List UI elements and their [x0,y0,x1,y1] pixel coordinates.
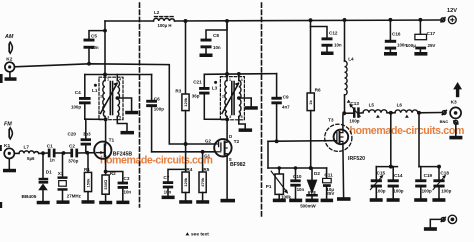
svg-text:6V8: 6V8 [308,190,316,195]
ground P1 [273,199,286,203]
node junction L1 pin3 drain [104,117,108,121]
node junction L3 pin1 [225,72,229,76]
capacitor C2 [64,149,95,158]
svg-text:C7: C7 [163,175,169,180]
resistor R3 120k [182,94,189,144]
svg-text:C16: C16 [392,31,401,36]
inductor L7 [19,151,39,154]
svg-text:5: 5 [119,115,121,119]
svg-text:K1: K1 [4,143,10,149]
inductor L5 [363,110,387,113]
capacitor C10 [290,166,300,198]
ground K3 [449,124,462,139]
node L3 phase dot [214,81,217,84]
node junction T3 drain-L4-C13 [342,111,346,115]
svg-text:25V: 25V [326,191,334,196]
svg-text:R5: R5 [203,167,209,172]
ground D1 [37,201,50,205]
connector plug 12V [441,18,445,22]
node junction C5 tap [103,29,107,33]
wire L7 to C1 [39,152,48,154]
svg-text:AM: AM [4,34,14,40]
svg-text:2: 2 [100,94,102,98]
svg-text:27MHz: 27MHz [67,194,82,199]
connector plug K3 [442,110,446,114]
svg-text:C8: C8 [213,33,219,38]
diode D2 zener 6V8 [306,168,318,199]
connector symbol AM plug [9,41,13,55]
svg-text:100p: 100p [375,188,385,193]
wire G2 bias to R4 [185,144,187,172]
svg-text:100µ H: 100µ H [158,23,172,28]
note see text [185,232,209,238]
ground R1 [82,200,95,204]
svg-text:C6: C6 [154,96,160,101]
svg-text:R2: R2 [110,171,116,176]
ground T3 source [337,197,351,201]
node junction supply-tank top [103,73,107,77]
node junction L5-L6 [389,111,393,115]
svg-text:L3: L3 [212,85,218,90]
svg-text:L1: L1 [92,88,98,93]
ground C16 [384,52,397,56]
svg-text:120k: 120k [183,177,188,187]
capacitor C20 [81,119,91,153]
svg-text:4: 4 [241,78,243,82]
node junction L6 output [417,111,421,115]
svg-text:330Ω: 330Ω [103,180,108,190]
wire L3 pin5 to ground [239,117,253,132]
svg-text:100k: 100k [281,194,291,199]
svg-text:T3: T3 [328,117,334,123]
svg-text:C11: C11 [324,172,333,177]
diode D1 varicap BB405 [38,153,48,201]
capacitor C8 [201,21,228,54]
transformer L3 secondary winding [239,74,241,117]
svg-text:D2: D2 [314,171,320,176]
ground C10 [289,199,302,203]
capacitor C19 [415,167,426,199]
node junction X1 tap [62,151,66,155]
transistor T3 IRF520 MOSFET [325,124,352,151]
svg-text:C21: C21 [193,80,202,85]
wire R6 feed from rail [310,20,312,93]
svg-text:C2: C2 [69,143,75,148]
node junction rail-L4 [343,18,347,22]
svg-text:C3: C3 [124,176,130,181]
svg-text:5: 5 [241,115,243,119]
ground X1 [57,200,70,204]
svg-text:C12: C12 [329,30,338,35]
svg-text:1: 1 [107,78,109,82]
potentiometer P1 100k [271,166,288,198]
node L1 phase dot [94,84,97,87]
wire L1 secondary tap to ground [116,96,139,114]
wire C15-C14 top [376,166,397,168]
svg-text:100µ: 100µ [406,43,416,48]
wire AM input K2 to G2 drop [15,64,215,144]
capacitor C7 [163,169,186,195]
wire drop to C19/C18 [418,113,420,167]
svg-text:10n: 10n [164,189,172,194]
wire K1 to L7 [15,152,19,154]
svg-text:470k: 470k [200,177,205,187]
node junction L3 pin4 [237,72,241,76]
node junction T1 gate [85,151,89,155]
svg-text:FM: FM [4,121,12,127]
svg-text:C17: C17 [427,31,436,36]
capacitor C1 [48,149,64,158]
svg-text:3: 3 [107,115,109,119]
svg-text:D1: D1 [46,170,52,175]
svg-text:T1: T1 [109,138,115,144]
wire C4 bottom to T1 drain node [85,118,106,120]
ground R5 [196,200,209,204]
wire T2 source to ground [226,156,228,198]
svg-text:K3: K3 [451,100,457,106]
capacitor C12 [311,27,333,52]
svg-text:IRF520: IRF520 [348,156,365,162]
capacitor C11 electrolytic [323,168,332,199]
svg-text:R1: R1 [84,167,90,172]
shield divider dashed line 2 [261,3,263,216]
svg-text:G2: G2 [205,138,211,143]
svg-text:2: 2 [222,94,224,98]
svg-text:10n: 10n [91,45,99,50]
resistor R2 330 [102,175,109,201]
wire drop to C15/C14 [390,113,392,167]
svg-text:R3: R3 [175,89,181,94]
wire T3 drain up [343,113,344,130]
wire C19-C18 top [419,166,439,168]
node junction rail-C16 [388,18,392,22]
svg-text:P1: P1 [266,184,272,189]
svg-text:G1: G1 [204,154,210,159]
transformer L1 secondary winding [117,75,119,117]
svg-text:C10: C10 [293,174,302,179]
node junction D1 tap [41,151,45,155]
capacitor C9 [271,74,281,142]
resistor R5 470k [199,152,206,200]
transformer L3 tuning arrow [222,82,239,114]
connector K2 [5,62,15,72]
svg-text:X1: X1 [58,171,64,176]
connector K1 [4,148,14,158]
ground C18 [432,198,445,202]
capacitor C4 [79,75,91,120]
ground C8 [200,54,213,58]
wire T1 drain to tank [105,119,107,141]
wire T3 gate line [268,140,334,143]
capacitor C3 [106,172,128,201]
svg-text:C14: C14 [394,173,403,178]
ground K2 [5,72,17,81]
svg-text:L5: L5 [369,103,375,108]
svg-text:4: 4 [119,78,121,82]
svg-text:C18: C18 [440,170,449,175]
svg-text:homemade-circuits.com: homemade-circuits.com [350,125,465,137]
inductor L2 [154,17,175,21]
inductor L6 [395,110,418,113]
ground T2 source [221,199,236,203]
svg-text:100p: 100p [393,188,403,193]
capacitor C21 [199,74,227,119]
svg-text:10n: 10n [124,190,132,195]
ground C7 [162,196,175,200]
wire L6 to K3 [418,112,441,114]
svg-text:C9: C9 [283,95,289,100]
resistor R1 150k [84,153,91,200]
svg-text:100p: 100p [71,105,81,110]
svg-text:1k: 1k [308,100,313,105]
node junction L3 pin3 drain [225,117,229,121]
wire bias network top [268,167,327,169]
capacitor C18 trimmer [433,167,446,199]
svg-text:BF245B: BF245B [113,151,133,157]
svg-text:L6: L6 [397,103,403,108]
svg-text:3: 3 [229,115,231,119]
svg-text:10n: 10n [213,45,221,50]
resistor R6 1k [307,93,314,168]
svg-text:see text: see text [191,232,209,238]
svg-text:R6: R6 [315,87,321,92]
capacitor C5 [84,31,106,64]
svg-text:BF982: BF982 [230,162,246,168]
wire supply drop to L1 tank [104,21,106,75]
terminal 12V [448,16,456,24]
wire +12V top rail [105,20,154,22]
transformer L3 primary winding [225,74,227,119]
svg-text:150k: 150k [85,178,90,188]
ground C12 [321,52,334,56]
node junction C9-gate [275,139,279,143]
svg-text:5µ6: 5µ6 [27,156,35,161]
svg-text:500mW: 500mW [300,203,316,208]
node junction C15/C14 [389,165,393,169]
transformer L1 tuning arrow [101,82,118,114]
capacitor C16 [385,20,396,52]
antenna arrow [453,82,462,97]
marker triangle L5 [376,115,380,118]
svg-text:4n7: 4n7 [282,105,290,110]
svg-text:25V: 25V [428,43,436,48]
wire T1 source [105,159,107,175]
marker triangle L4 [347,100,351,103]
crystal X1 27MHz [58,153,68,200]
node junction rail-C17 [418,18,422,22]
marker triangle L6 [405,115,409,118]
node junction rail-L3 feed [225,19,229,23]
svg-text:100p: 100p [154,107,164,112]
ground R4 [179,200,192,204]
capacitor C14 [388,167,399,199]
node junction G2 bias divider [184,142,188,146]
transformer L1 primary winding [103,75,106,120]
resistor R4 120k [182,172,189,200]
capacitor C15 trimmer [370,167,383,199]
svg-text:C4: C4 [75,90,81,95]
node junction C5-AM wire [87,62,91,66]
ground C17 [414,52,427,56]
transformer L3 core [232,82,234,115]
capacitor C13 trimmer [344,104,363,118]
ground C3 [116,201,129,205]
connector symbol FM plug [9,126,13,140]
node junction C18 top [437,165,441,169]
ground K1 [3,159,16,173]
ground C15 [370,198,383,202]
svg-text:10n: 10n [334,43,342,48]
scan edge smudges [0,74,3,208]
svg-text:100p: 100p [422,188,432,193]
capacitor C17 electrolytic [415,20,427,52]
svg-text:C15: C15 [377,170,386,175]
transformer L3 shield box dashed [220,77,244,120]
wire L3 secondary tap to ground [237,96,258,110]
svg-text:C1: C1 [47,143,53,148]
connector chassis ground terminal [424,215,457,231]
wire rail to L3 pin1 node [226,21,228,74]
wire R3 feed [185,21,187,94]
svg-text:BNC: BNC [440,119,449,124]
wire L3 supply node [204,73,276,76]
node junction G1-R5 [201,150,205,154]
svg-text:C20: C20 [68,131,77,136]
svg-text:L7: L7 [24,144,30,149]
connector K3 BNC [450,107,461,118]
node junction rail-R3 [184,19,188,23]
wire gate line to bias network [267,141,269,168]
ground C11 [321,199,334,203]
ground D2 [306,199,319,203]
node junction R6-network [309,166,313,170]
wire T2 drain [226,119,228,139]
svg-text:T2: T2 [234,139,240,145]
inductor L4 [345,20,348,113]
node junction T1 source [104,170,108,174]
ground C19 [414,198,427,202]
shield divider dashed line 1 [139,3,141,207]
svg-text:10n: 10n [297,187,305,192]
wire T3 source to ground [342,144,345,197]
svg-text:K2: K2 [6,56,12,62]
ground C14 [387,198,400,202]
svg-text:BB405: BB405 [22,194,37,200]
capacitor C6 [146,75,157,152]
svg-text:1n: 1n [50,158,55,163]
svg-text:100p: 100p [349,119,359,124]
ground R2 [99,201,112,205]
wire G1 [152,151,215,153]
transistor T1 BF245B JFET [94,142,111,159]
transformer L1 shield box dashed [99,77,123,120]
node junction rail-R6/C12 [309,18,313,22]
connector plug K3 ground side [454,120,458,124]
transistor T2 BF982 dual-gate MOSFET [214,139,231,156]
svg-text:C13: C13 [350,101,359,106]
wire tank top distribution [85,74,152,76]
svg-text:370p: 370p [68,159,78,164]
svg-text:120k: 120k [183,97,188,107]
svg-text:12V: 12V [447,8,457,14]
svg-text:L2: L2 [154,10,160,15]
transformer L1 core [110,82,112,115]
svg-text:3p3: 3p3 [83,131,91,136]
svg-text:R4: R4 [186,167,192,172]
svg-text:C19: C19 [424,173,433,178]
svg-text:1: 1 [229,78,231,82]
svg-text:36p: 36p [192,93,200,98]
wire L1 pin5 to ground [117,117,134,135]
svg-text:100p: 100p [441,188,451,193]
svg-text:L4: L4 [348,56,354,61]
svg-text:C5: C5 [91,33,97,38]
